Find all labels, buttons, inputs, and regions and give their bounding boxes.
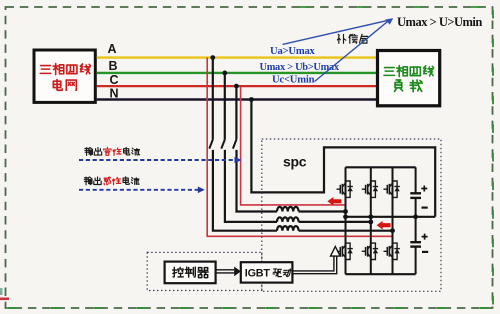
- red wire from phase A tap down and right to leg 3: [207, 58, 392, 237]
- red wire from phase C tap down and right to leg 1: [241, 86, 346, 205]
- node: tap B: [222, 71, 227, 76]
- node line2-leg2: [368, 220, 373, 225]
- svg-text:Umax > Ub>Umax: Umax > Ub>Umax: [260, 62, 340, 73]
- wire DC midpoint rail: [346, 216, 436, 218]
- IGBT Q6 (bottom row) with anti-parallel diode: [384, 243, 400, 259]
- label 输出容性电流 (output capacitive current): [85, 147, 140, 155]
- capacitor C2 (lower DC link): [410, 217, 421, 274]
- label C2 plus: [422, 234, 428, 240]
- IGBT Q4 (bottom row) with anti-parallel diode: [337, 243, 353, 259]
- wire DC top rail: [346, 166, 416, 168]
- wire bridge leg 3: [392, 167, 394, 274]
- wire bridge leg 2: [370, 167, 372, 274]
- label 补偿后 (after compensation): [337, 34, 367, 43]
- wire inductor line 3 to leg3: [299, 230, 393, 232]
- dotted box: controller enclosure: [147, 252, 262, 290]
- dashed arrow inductive current: [79, 189, 200, 191]
- svg-text:Uc<Umin: Uc<Umin: [272, 74, 315, 85]
- wire inductor line 2 to leg2: [299, 221, 371, 223]
- brighter green dashes on bottom/right border: [8, 307, 490, 309]
- dotted box: spc enclosure: [262, 139, 441, 291]
- wire phase C (red): [97, 85, 376, 87]
- label 输出感性电流 (output inductive current): [84, 177, 139, 185]
- svg-text:C: C: [110, 73, 119, 87]
- svg-text:N: N: [110, 87, 119, 101]
- node midrail-leg2: [368, 214, 373, 219]
- scan artifact red dash: [0, 298, 9, 301]
- node midrail-capacitor: [413, 214, 418, 219]
- inductor L3: [277, 226, 299, 231]
- wire inductor line 1 to leg1: [299, 210, 346, 212]
- node: tap C: [234, 84, 239, 89]
- wire tap A down + switch S1 + elbow to inductor line 3: [212, 58, 214, 140]
- wire tap N routed around top of bridge to DC midpoint: [251, 100, 435, 217]
- wire bridge leg 1: [345, 167, 347, 274]
- IGBT Q3 (top row) with anti-parallel diode: [384, 181, 400, 197]
- wire phase B (green): [97, 72, 376, 74]
- wire tap C down + switch S3 + elbow to inductor line 1: [235, 86, 237, 140]
- node midrail-leg1: [343, 214, 348, 219]
- wire DC bottom rail: [346, 273, 416, 275]
- svg-text:Umax > U>Umin: Umax > U>Umin: [397, 15, 482, 29]
- box: three-phase four-wire load 三相四线负载: [378, 51, 440, 106]
- connector driver to bridge gates (double line, hollow up arrow): [292, 256, 336, 274]
- node: tap A: [210, 55, 215, 60]
- svg-text:Ua>Umax: Ua>Umax: [270, 46, 316, 57]
- wire neutral N (black): [97, 98, 376, 101]
- wire tap B down + switch S2 + elbow to inductor line 2: [224, 73, 226, 140]
- label C1 plus: [421, 186, 427, 192]
- blue arrowhead: [385, 18, 393, 25]
- svg-text:A: A: [108, 42, 117, 56]
- red arrow (current direction, lower): [377, 221, 391, 230]
- IGBT Q2 (top row) with anti-parallel diode: [362, 181, 378, 197]
- box: three-phase four-wire grid 三相四线电网: [34, 50, 95, 102]
- capacitor C1 (upper DC link): [410, 167, 421, 217]
- box: controller 控制器: [165, 262, 216, 284]
- scan artifact teal dash: [0, 288, 3, 295]
- svg-text:B: B: [109, 59, 118, 73]
- inductor L1: [277, 207, 299, 212]
- dashed arrow capacitive current: [79, 159, 237, 161]
- arrow from Uc<Umin to Umax: [315, 22, 388, 82]
- label C1 minus: [422, 207, 428, 209]
- IGBT Q5 (bottom row) with anti-parallel diode: [362, 243, 378, 259]
- inductor L2: [277, 217, 299, 222]
- node: tap N: [249, 97, 254, 102]
- wire phase A (yellow): [97, 56, 376, 58]
- box: IGBT driver IGBT驱动: [241, 262, 293, 282]
- label C2 minus: [422, 251, 428, 253]
- svg-text:spc: spc: [283, 154, 307, 170]
- node line1-leg1: [343, 209, 348, 214]
- arrow from Ua>Umax to Umax: [283, 21, 388, 45]
- IGBT Q1 (top row) with anti-parallel diode: [337, 181, 353, 197]
- node line3-leg3: [390, 228, 395, 233]
- svg-text:IGBT: IGBT: [245, 267, 271, 279]
- connector controller to driver (double line arrow): [216, 270, 235, 273]
- red arrow (current direction, upper): [327, 197, 341, 206]
